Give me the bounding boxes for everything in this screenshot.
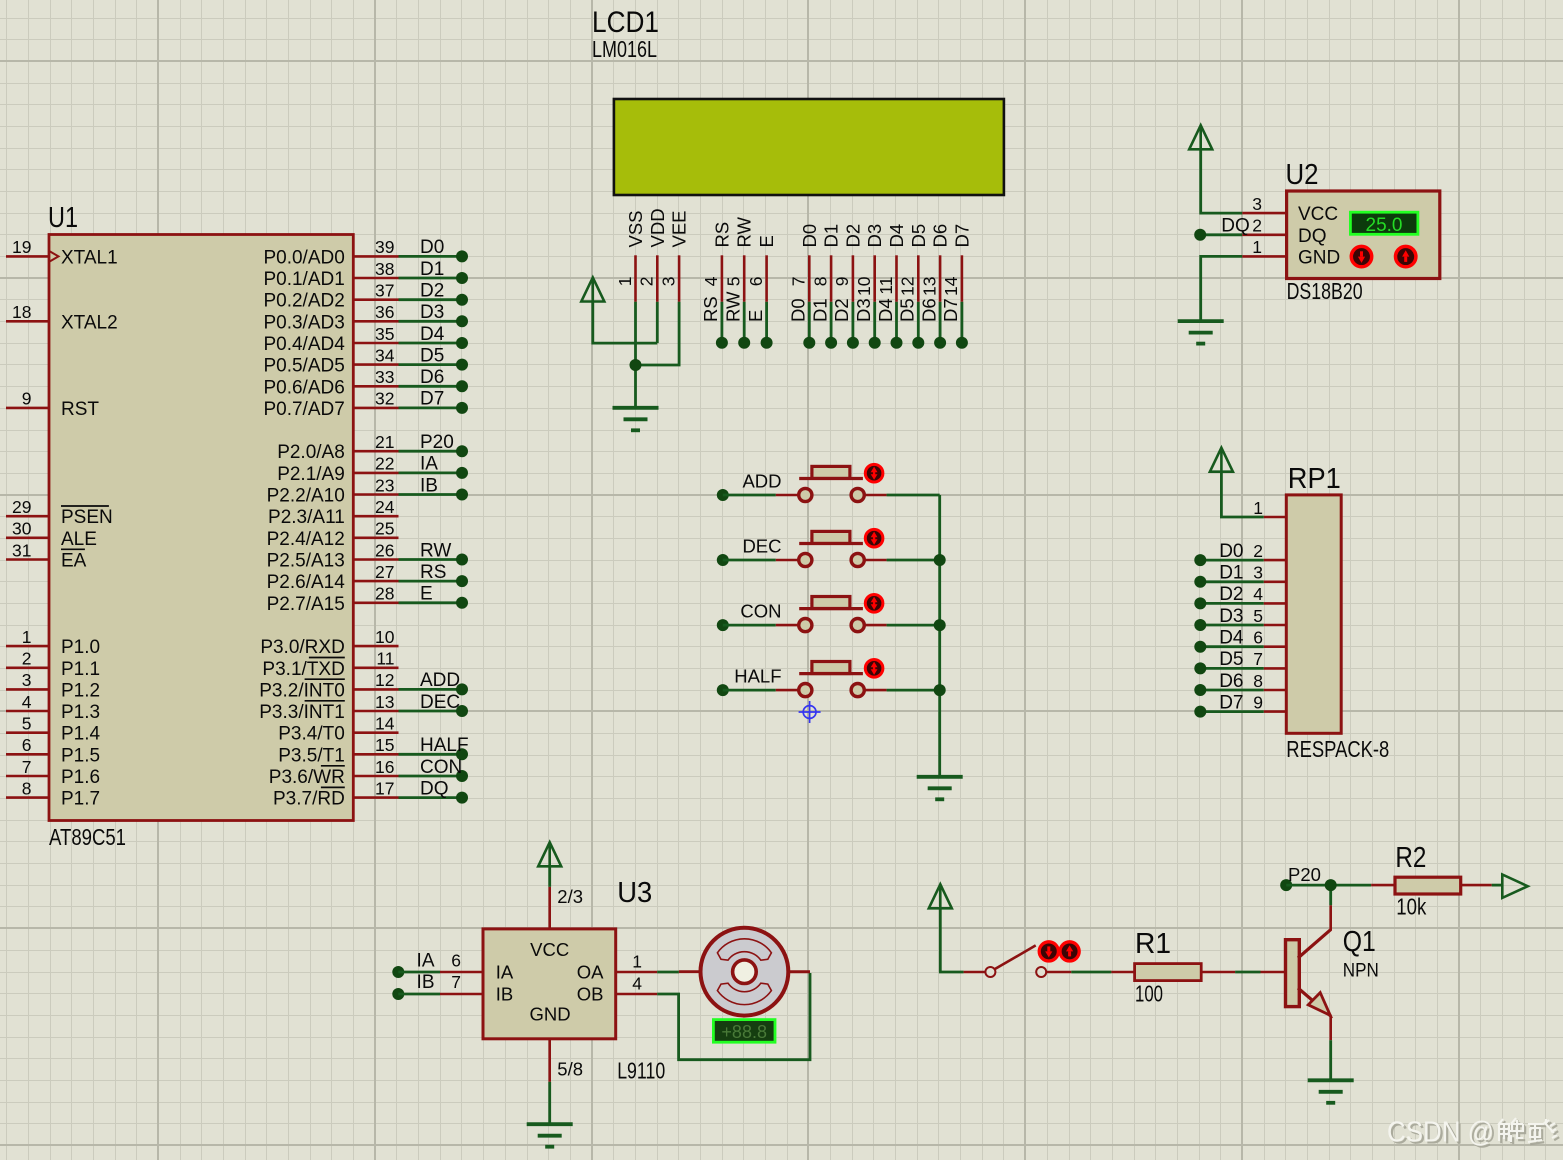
- resistor R1: [1135, 928, 1202, 1007]
- wire R2 to output: [1461, 884, 1503, 887]
- svg-text:RS: RS: [700, 296, 721, 322]
- svg-text:P0.0/AD0: P0.0/AD0: [263, 247, 344, 268]
- wire net D3 to LCD1: [853, 298, 881, 348]
- U1 pin 14 P3.4/T0: [278, 714, 398, 745]
- wire net E from U1 pin 28: [399, 584, 469, 609]
- wire net D1 from U1 pin 38: [399, 259, 469, 284]
- svg-text:RST: RST: [61, 399, 99, 420]
- resistor R2: [1395, 842, 1461, 920]
- wire Q1 emitter to ground: [1329, 1016, 1332, 1080]
- svg-text:6: 6: [1253, 628, 1263, 648]
- svg-text:15: 15: [375, 735, 394, 755]
- svg-text:P2.7/A15: P2.7/A15: [267, 594, 345, 615]
- wire power to switch: [940, 908, 963, 972]
- svg-text:P20: P20: [420, 432, 454, 453]
- node P20: [1280, 864, 1321, 891]
- wire net D0 to RP1: [1194, 541, 1263, 566]
- svg-text:D3: D3: [853, 298, 874, 322]
- svg-text:VDD: VDD: [647, 208, 668, 247]
- U1 pin 34 P0.5/AD5: [263, 345, 398, 376]
- svg-text:DEC: DEC: [742, 536, 781, 557]
- svg-text:7: 7: [1253, 649, 1263, 669]
- svg-text:D4: D4: [886, 224, 907, 248]
- U1 pin 39 P0.0/AD0: [263, 237, 398, 268]
- temperature sensor U2: [1286, 159, 1440, 304]
- motor body: [701, 928, 789, 1016]
- svg-text:D7: D7: [940, 298, 961, 322]
- svg-text:29: 29: [12, 497, 31, 517]
- svg-text:33: 33: [375, 367, 394, 387]
- svg-text:LM016L: LM016L: [592, 36, 657, 62]
- svg-text:4: 4: [22, 692, 32, 712]
- svg-text:ADD: ADD: [742, 471, 781, 492]
- wire switch to R1: [1046, 971, 1134, 974]
- wire P20 to R2: [1286, 879, 1395, 891]
- motor rpm display +88.8: [713, 1020, 775, 1043]
- svg-text:17: 17: [375, 778, 394, 798]
- svg-text:P3.7/RD: P3.7/RD: [273, 789, 345, 810]
- svg-text:3: 3: [22, 670, 32, 690]
- ground for LCD: [613, 408, 659, 431]
- svg-text:IA: IA: [496, 961, 514, 982]
- svg-text:OA: OA: [577, 961, 604, 982]
- U1 pin 16 P3.6/WR: [269, 757, 399, 788]
- svg-text:D4: D4: [1219, 628, 1244, 649]
- U3 pin 4 OB: [616, 974, 658, 995]
- button ADD: [717, 464, 940, 501]
- svg-text:P3.2/INT0: P3.2/INT0: [259, 680, 345, 701]
- wire net RS to LCD1: [700, 296, 728, 349]
- power +5V: [581, 278, 604, 302]
- wire U3 OA to motor: [657, 971, 679, 974]
- svg-text:U3: U3: [617, 877, 652, 909]
- wire net CON from U1 pin 16: [399, 757, 469, 782]
- U1 pin 19 XTAL1: [6, 237, 118, 268]
- wire net RW to LCD1: [723, 291, 751, 349]
- wire net D2 from U1 pin 37: [399, 281, 469, 306]
- svg-text:IB: IB: [496, 983, 513, 1004]
- svg-text:22: 22: [375, 454, 394, 474]
- U1 pin 4 P1.3: [6, 692, 100, 723]
- svg-text:7: 7: [789, 277, 809, 287]
- svg-text:P3.1/TXD: P3.1/TXD: [262, 659, 344, 680]
- svg-text:1: 1: [615, 277, 635, 287]
- wire U3 OB to motor (around): [657, 973, 810, 1060]
- LCD1 pin 12 D5: [898, 224, 929, 302]
- svg-text:P3.5/T1: P3.5/T1: [278, 745, 345, 766]
- svg-text:P0.7/AD7: P0.7/AD7: [263, 399, 344, 420]
- wire net D5 from U1 pin 34: [399, 345, 469, 370]
- RP1 pin 4 D2: [1253, 584, 1286, 604]
- svg-text:8: 8: [810, 277, 830, 287]
- ground for Q1: [1308, 1080, 1354, 1103]
- power +5V: [929, 884, 952, 908]
- svg-text:14: 14: [375, 714, 395, 734]
- svg-text:3: 3: [1252, 194, 1262, 214]
- wire net D6 to LCD1: [918, 298, 946, 348]
- svg-text:D3: D3: [864, 224, 885, 248]
- svg-text:18: 18: [12, 302, 31, 322]
- U1 pin 28 P2.7/A15: [267, 584, 399, 615]
- wire net D6 from U1 pin 33: [399, 367, 469, 392]
- wire VEE to VSS junction: [636, 302, 680, 365]
- wire net D3 from U1 pin 36: [399, 302, 469, 327]
- svg-text:D5: D5: [908, 224, 929, 248]
- LCD LCD1 label: [592, 6, 659, 62]
- U3 GND pin 5/8: [550, 1039, 583, 1082]
- svg-text:P1.7: P1.7: [61, 789, 100, 810]
- svg-text:P2.5/A13: P2.5/A13: [267, 551, 345, 572]
- wire U2 GND to ground: [1201, 256, 1243, 321]
- wire button bus to ground: [938, 495, 941, 777]
- svg-text:1: 1: [22, 627, 32, 647]
- svg-text:5: 5: [724, 277, 744, 287]
- LCD1 pin 1 VSS: [615, 210, 646, 301]
- wire net D7 to LCD1: [940, 298, 968, 348]
- svg-text:R1: R1: [1135, 928, 1171, 960]
- U1 pin 11 P3.1/TXD: [262, 649, 398, 680]
- U1 pin 35 P0.4/AD4: [263, 324, 398, 355]
- motor driver U3: [483, 877, 665, 1084]
- svg-text:NPN: NPN: [1343, 960, 1379, 982]
- U1 pin 10 P3.0/RXD: [260, 627, 398, 658]
- wire net IB from U1 pin 23: [399, 475, 469, 500]
- svg-text:RS: RS: [711, 222, 732, 248]
- button HALF: [717, 660, 940, 697]
- wire VDD stub: [656, 302, 659, 343]
- svg-text:D2: D2: [1219, 584, 1243, 605]
- U1 pin 13 P3.3/INT1: [259, 692, 398, 723]
- motor pin stub left: [679, 970, 705, 973]
- U1 pin 32 P0.7/AD7: [263, 389, 398, 420]
- ground for U3: [527, 1124, 573, 1147]
- svg-text:GND: GND: [529, 1004, 570, 1025]
- svg-text:D1: D1: [821, 224, 842, 248]
- svg-text:OB: OB: [577, 983, 604, 1004]
- svg-text:P2.0/A8: P2.0/A8: [277, 442, 345, 463]
- svg-text:D0: D0: [799, 224, 820, 248]
- U2 temp down button: [1351, 246, 1371, 266]
- svg-text:D6: D6: [930, 224, 951, 248]
- svg-text:VEE: VEE: [669, 210, 690, 247]
- svg-text:P3.4/T0: P3.4/T0: [278, 724, 345, 745]
- svg-text:D7: D7: [1219, 692, 1243, 713]
- svg-text:P2.6/A14: P2.6/A14: [267, 572, 346, 593]
- U1 pin 23 P2.2/A10: [267, 475, 399, 506]
- LCD1 pin 7 D0: [789, 224, 820, 302]
- svg-text:P2.3/A11: P2.3/A11: [268, 507, 345, 528]
- U1 pin 5 P1.4: [6, 714, 101, 745]
- svg-text:P1.6: P1.6: [61, 767, 100, 788]
- ground for buttons: [917, 777, 963, 800]
- svg-text:6: 6: [22, 735, 32, 755]
- svg-text:VCC: VCC: [530, 939, 569, 960]
- junction node CON bus: [934, 619, 946, 631]
- svg-text:D1: D1: [1219, 563, 1243, 584]
- svg-text:D1: D1: [420, 259, 444, 280]
- U1 pin 6 P1.5: [6, 735, 100, 766]
- RP1 pin 3 D1: [1253, 563, 1286, 583]
- svg-text:4: 4: [632, 974, 642, 994]
- U1 pin 15 P3.5/T1: [278, 735, 398, 766]
- U1 pin 9 RST: [6, 389, 99, 420]
- svg-text:D0: D0: [1219, 541, 1243, 562]
- svg-text:100: 100: [1135, 981, 1163, 1007]
- svg-text:6: 6: [746, 277, 766, 287]
- svg-text:D0: D0: [420, 237, 444, 258]
- wire net D0 from U1 pin 39: [399, 237, 469, 262]
- wire net D5 to LCD1: [897, 298, 925, 348]
- svg-text:37: 37: [375, 281, 394, 301]
- svg-text:25.0: 25.0: [1366, 215, 1403, 236]
- svg-text:25: 25: [375, 519, 394, 539]
- U2 temperature display 25.0: [1350, 212, 1418, 236]
- U1 pin 29 PSEN: [6, 497, 113, 528]
- U1 pin 1 P1.0: [6, 627, 100, 658]
- svg-text:VCC: VCC: [1298, 204, 1338, 225]
- svg-text:P1.4: P1.4: [61, 724, 101, 745]
- svg-text:7: 7: [451, 972, 461, 992]
- U1 pin 22 P2.1/A9: [277, 454, 398, 485]
- RP1 pin 1: [1253, 498, 1286, 518]
- LCD1 pin 9 D2: [832, 224, 863, 302]
- wire net D2 to LCD1: [831, 298, 859, 348]
- svg-text:2: 2: [1252, 216, 1262, 236]
- U2 pin 1 GND: [1242, 237, 1286, 257]
- svg-text:14: 14: [941, 276, 961, 296]
- output terminal arrow: [1502, 875, 1527, 898]
- svg-text:P0.5/AD5: P0.5/AD5: [263, 356, 344, 377]
- U1 pin 38 P0.1/AD1: [263, 259, 398, 290]
- U3 VCC pin 2/3: [550, 886, 583, 929]
- svg-text:D0: D0: [788, 298, 809, 322]
- svg-text:D5: D5: [897, 298, 918, 322]
- svg-text:39: 39: [375, 237, 394, 257]
- svg-text:28: 28: [375, 584, 394, 604]
- motor pin stub right: [777, 970, 810, 973]
- switch toggle buttons: [1039, 942, 1058, 961]
- svg-text:9: 9: [1253, 692, 1263, 712]
- wire power to VDD: [593, 301, 658, 343]
- button CON: [717, 595, 940, 632]
- svg-text:D4: D4: [875, 298, 896, 322]
- svg-text:P1.5: P1.5: [61, 745, 100, 766]
- svg-text:P0.4/AD4: P0.4/AD4: [263, 334, 345, 355]
- svg-text:11: 11: [376, 649, 394, 669]
- svg-text:IB: IB: [420, 475, 438, 496]
- svg-text:P0.2/AD2: P0.2/AD2: [263, 291, 344, 312]
- svg-text:E: E: [756, 235, 777, 247]
- svg-text:D2: D2: [831, 298, 852, 322]
- svg-text:34: 34: [375, 345, 395, 365]
- svg-text:16: 16: [375, 757, 394, 777]
- svg-text:XTAL2: XTAL2: [61, 312, 118, 333]
- wire net D3 to RP1: [1194, 606, 1263, 631]
- junction node DEC bus: [934, 554, 946, 566]
- svg-text:38: 38: [375, 259, 394, 279]
- svg-text:4: 4: [701, 276, 721, 286]
- svg-text:E: E: [420, 584, 433, 605]
- LCD1 pin 8 D1: [810, 224, 841, 302]
- svg-text:D6: D6: [1219, 671, 1243, 692]
- svg-text:1: 1: [1253, 498, 1263, 518]
- svg-text:23: 23: [375, 475, 394, 495]
- svg-text:ADD: ADD: [420, 670, 460, 691]
- LCD1 pin 11 D4: [876, 224, 907, 302]
- svg-text:P3.6/WR: P3.6/WR: [269, 767, 345, 788]
- wire R1 to Q1 base: [1201, 971, 1285, 974]
- svg-text:+88.8: +88.8: [721, 1022, 767, 1042]
- svg-text:L9110: L9110: [617, 1058, 665, 1084]
- U1 pin 21 P2.0/A8: [277, 432, 398, 463]
- svg-text:D6: D6: [918, 298, 939, 322]
- svg-text:13: 13: [919, 277, 939, 296]
- svg-text:P0.6/AD6: P0.6/AD6: [263, 377, 344, 398]
- svg-text:7: 7: [22, 757, 32, 777]
- wire net E to LCD1: [745, 302, 773, 349]
- wire net D5 to RP1: [1194, 649, 1263, 674]
- U1 pin 33 P0.6/AD6: [263, 367, 398, 398]
- MCU U1: [48, 202, 353, 850]
- svg-text:EA: EA: [61, 551, 87, 572]
- RP1 pin 9 D7: [1253, 692, 1286, 712]
- svg-text:D7: D7: [951, 224, 972, 248]
- wire net D1 to RP1: [1194, 563, 1263, 588]
- U1 pin 36 P0.3/AD3: [263, 302, 398, 333]
- svg-text:P1.1: P1.1: [61, 659, 100, 680]
- svg-text:10: 10: [375, 627, 395, 647]
- LCD1 pin 3 VEE: [658, 210, 689, 301]
- svg-text:GND: GND: [1298, 247, 1340, 268]
- svg-text:1: 1: [632, 952, 642, 972]
- RP1 pin 6 D4: [1253, 628, 1286, 648]
- svg-text:DQ: DQ: [420, 778, 449, 799]
- U1 pin 30 ALE: [6, 519, 97, 550]
- wire net D4 to RP1: [1194, 628, 1263, 653]
- svg-text:21: 21: [375, 432, 394, 452]
- svg-text:D4: D4: [420, 324, 445, 345]
- svg-text:D5: D5: [1219, 649, 1243, 670]
- wire net IA from U1 pin 22: [399, 454, 469, 479]
- LCD1 pin 14 D7: [941, 224, 972, 302]
- wire net D7 from U1 pin 32: [399, 389, 469, 414]
- svg-text:RP1: RP1: [1288, 463, 1341, 495]
- U3 pin 1 OA: [616, 952, 658, 973]
- watermark: [1387, 1117, 1559, 1151]
- svg-text:P20: P20: [1288, 864, 1321, 885]
- svg-text:CON: CON: [420, 757, 462, 778]
- RP1 pin 8 D6: [1253, 671, 1286, 691]
- svg-text:D6: D6: [420, 367, 444, 388]
- svg-text:P1.0: P1.0: [61, 637, 100, 658]
- svg-text:8: 8: [22, 778, 32, 798]
- svg-text:U2: U2: [1286, 159, 1319, 191]
- power +5V: [1189, 125, 1212, 149]
- svg-text:2: 2: [637, 277, 657, 287]
- svg-text:IA: IA: [420, 454, 438, 475]
- svg-text:5/8: 5/8: [557, 1059, 583, 1080]
- svg-text:VSS: VSS: [625, 210, 646, 247]
- wire net D6 to RP1: [1194, 671, 1263, 696]
- wire net DQ from U1 pin 17: [399, 778, 469, 803]
- wire net HALF from U1 pin 15: [399, 735, 469, 760]
- power +5V: [1210, 448, 1233, 472]
- U3 pin 6 IA: [440, 950, 483, 972]
- svg-text:DEC: DEC: [420, 692, 460, 713]
- wire net DEC from U1 pin 13: [399, 692, 469, 717]
- RP1 pin 5 D3: [1253, 606, 1286, 626]
- U3 pin 7 IB: [440, 972, 483, 994]
- svg-text:DQ: DQ: [1221, 216, 1250, 237]
- svg-text:31: 31: [12, 540, 31, 560]
- svg-text:DS18B20: DS18B20: [1287, 278, 1363, 304]
- svg-text:12: 12: [375, 670, 394, 690]
- wire net D4 to LCD1: [875, 298, 903, 348]
- svg-text:R2: R2: [1395, 842, 1426, 874]
- wire VSS down to ground: [634, 302, 637, 408]
- wire net ADD from U1 pin 12: [399, 670, 469, 695]
- svg-text:HALF: HALF: [420, 735, 469, 756]
- junction node VSS/VEE: [630, 359, 642, 371]
- svg-text:P0.1/AD1: P0.1/AD1: [263, 269, 344, 290]
- svg-text:D1: D1: [809, 298, 830, 322]
- U1 pin 12 P3.2/INT0: [259, 670, 398, 701]
- RP1 pin 2 D0: [1253, 541, 1286, 561]
- svg-text:XTAL1: XTAL1: [61, 247, 118, 268]
- U1 pin 31 EA: [6, 540, 87, 571]
- wire net IB to U3: [392, 972, 440, 1000]
- svg-text:LCD1: LCD1: [592, 6, 659, 39]
- wire U3 GND to ground: [548, 1082, 551, 1124]
- svg-text:10: 10: [854, 276, 874, 296]
- wire net RS from U1 pin 27: [399, 562, 469, 587]
- transistor Q1: [1286, 926, 1379, 1016]
- svg-text:26: 26: [375, 540, 394, 560]
- svg-text:P1.2: P1.2: [61, 680, 100, 701]
- power +5V: [538, 842, 561, 866]
- U1 pin 25 P2.4/A12: [267, 519, 399, 550]
- resistor pack RP1: [1286, 463, 1389, 762]
- svg-text:D2: D2: [842, 224, 863, 248]
- U2 pin 2 DQ: [1242, 216, 1286, 236]
- svg-text:IB: IB: [417, 972, 435, 993]
- svg-text:11: 11: [876, 277, 896, 295]
- svg-text:2: 2: [22, 649, 32, 669]
- LCD1 pin 13 D6: [919, 224, 950, 302]
- svg-text:RS: RS: [420, 562, 446, 583]
- svg-text:2: 2: [1253, 541, 1263, 561]
- svg-text:RW: RW: [734, 216, 755, 247]
- svg-text:P1.3: P1.3: [61, 702, 100, 723]
- wire net D7 to RP1: [1194, 692, 1263, 717]
- LCD1 pin 4 RS: [701, 222, 732, 302]
- svg-text:DQ: DQ: [1298, 226, 1327, 247]
- wire net DQ to U2: [1194, 216, 1250, 241]
- svg-text:36: 36: [375, 302, 394, 322]
- wire power to RP1 pin1: [1221, 472, 1263, 517]
- svg-text:32: 32: [375, 389, 394, 409]
- wire net D4 from U1 pin 35: [399, 324, 469, 349]
- svg-text:5: 5: [22, 714, 32, 734]
- U1 pin 18 XTAL2: [6, 302, 118, 333]
- svg-text:D2: D2: [420, 281, 444, 302]
- svg-text:19: 19: [12, 237, 31, 257]
- svg-text:CSDN @: CSDN @: [1387, 1117, 1494, 1149]
- junction node HALF bus: [934, 684, 946, 696]
- button DEC: [717, 529, 940, 566]
- svg-text:30: 30: [12, 519, 32, 539]
- svg-text:IA: IA: [417, 950, 435, 971]
